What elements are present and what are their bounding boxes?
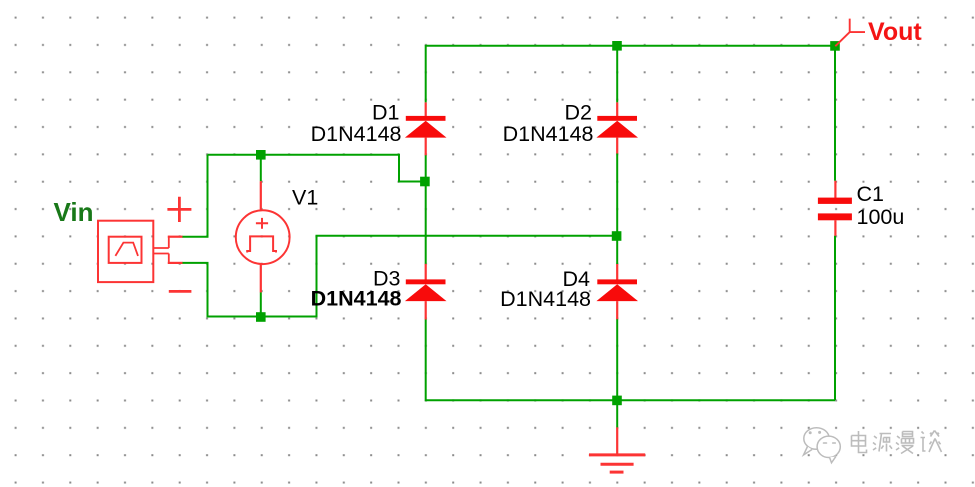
watermark text tan bbox=[921, 431, 942, 453]
wire mid vertical riser bbox=[316, 236, 318, 318]
wire mid horizontal to D2 junction bbox=[316, 235, 614, 237]
wire D2 anode top bbox=[616, 45, 618, 103]
svg-text:Vin: Vin bbox=[54, 197, 94, 227]
svg-text:D2: D2 bbox=[565, 101, 592, 125]
diode D3 bbox=[405, 264, 447, 320]
watermark text man bbox=[896, 432, 914, 454]
wire V1 bottom pin bbox=[260, 292, 262, 317]
plus polarity mark bbox=[167, 197, 191, 222]
svg-text:D1: D1 bbox=[372, 101, 399, 125]
wire Vin lower pin to left vertical bbox=[182, 262, 209, 264]
wire V1 bottom horizontal bbox=[207, 316, 317, 318]
node bottom bus / ground bbox=[612, 396, 622, 406]
wire Vin upper pin to left vertical bbox=[182, 236, 209, 238]
diode D4 bbox=[596, 264, 638, 319]
wire D2-D4 middle bbox=[616, 153, 618, 264]
node V1 top bbox=[256, 150, 266, 160]
wire right column lower bbox=[834, 236, 836, 401]
ground symbol bbox=[589, 427, 645, 472]
Vout voltage probe marker bbox=[835, 19, 865, 47]
capacitor C1 bbox=[818, 181, 852, 236]
wire ground stem bbox=[616, 400, 618, 427]
watermark text yuan bbox=[873, 434, 892, 452]
wire V1 top pin bbox=[260, 154, 262, 182]
wire top bus bbox=[426, 45, 835, 47]
node D2 cathode junction bbox=[612, 231, 622, 241]
svg-text:D1N4148: D1N4148 bbox=[311, 287, 402, 311]
node D1 cathode junction bbox=[420, 177, 430, 187]
wire top left horizontal bbox=[208, 154, 400, 156]
voltage source V1 body bbox=[236, 181, 290, 292]
node V1 bottom bbox=[256, 312, 266, 322]
watermark text dian bbox=[852, 431, 867, 453]
wire left vertical upper bbox=[207, 155, 209, 237]
minus polarity mark bbox=[169, 290, 192, 293]
node top right / Vout bbox=[830, 41, 840, 51]
svg-text:D1N4148: D1N4148 bbox=[503, 122, 594, 146]
svg-text:C1: C1 bbox=[857, 182, 884, 206]
diode D1 bbox=[405, 102, 447, 155]
wire left vertical lower bbox=[207, 263, 209, 318]
wire bottom bus bbox=[426, 399, 835, 401]
wire step down to D1 junction bbox=[399, 154, 421, 182]
wire D1 anode top bbox=[425, 45, 427, 103]
watermark logo wechat bubbles bbox=[804, 428, 841, 463]
wire right column upper bbox=[834, 46, 836, 181]
diode D2 bbox=[596, 102, 638, 153]
wire D3 cathode bottom bbox=[425, 319, 427, 401]
svg-text:Vout: Vout bbox=[868, 18, 922, 46]
node top bus / D2 bbox=[612, 41, 622, 51]
wire D1-D3 middle bbox=[425, 155, 427, 264]
wire D4 cathode bottom bbox=[616, 319, 618, 400]
svg-text:D1N4148: D1N4148 bbox=[500, 287, 591, 311]
svg-text:D1N4148: D1N4148 bbox=[311, 122, 402, 146]
Vin input port symbol bbox=[98, 221, 183, 282]
svg-text:100u: 100u bbox=[857, 205, 905, 229]
svg-text:V1: V1 bbox=[292, 185, 318, 209]
